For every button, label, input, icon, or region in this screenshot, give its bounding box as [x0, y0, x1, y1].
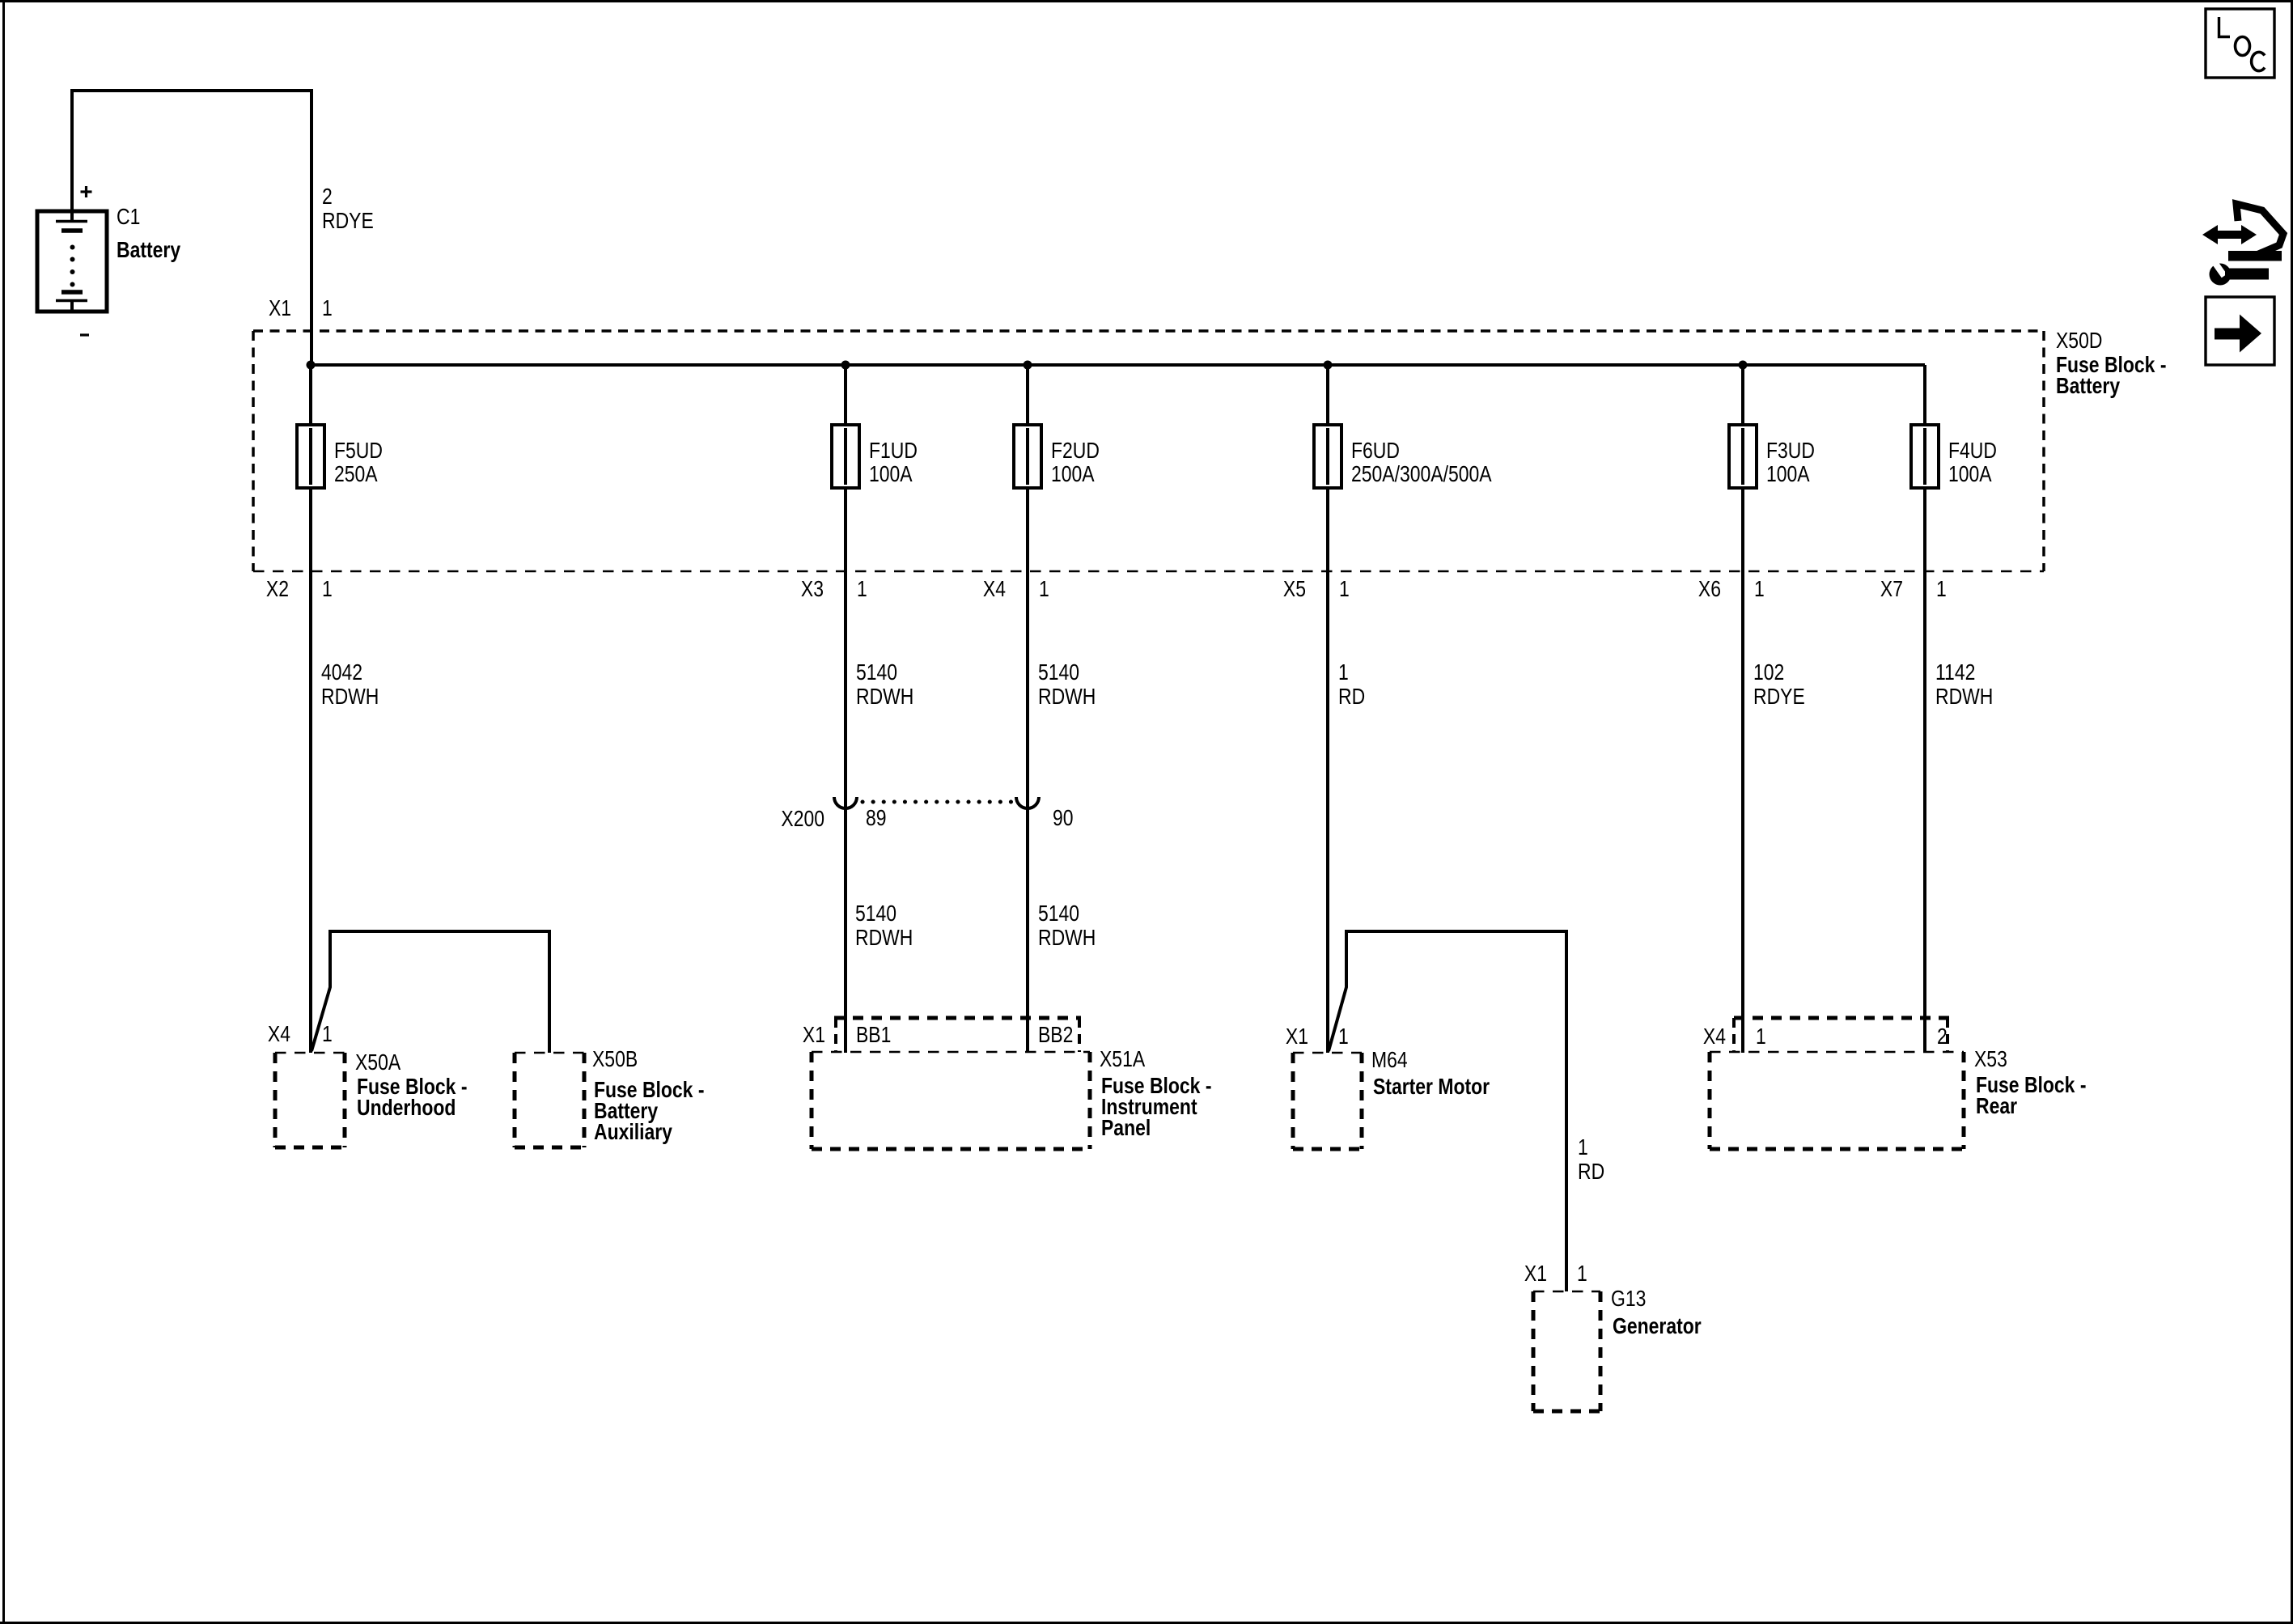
svg-text:X50B: X50B	[592, 1047, 638, 1072]
fuse block instrument panel X51A box	[812, 1052, 1090, 1149]
svg-text:Panel: Panel	[1101, 1116, 1151, 1141]
generator G13 box	[1533, 1291, 1600, 1411]
svg-text:5140: 5140	[855, 901, 896, 926]
svg-text:Starter Motor: Starter Motor	[1373, 1075, 1490, 1100]
svg-text:RDWH: RDWH	[321, 685, 379, 710]
svg-text:X1: X1	[1524, 1261, 1547, 1287]
svg-text:F3UD: F3UD	[1766, 439, 1815, 464]
fuse block rear X53 box	[1710, 1052, 1964, 1149]
svg-text:RDYE: RDYE	[322, 209, 374, 234]
wire through fuse F2UD	[1026, 365, 1029, 1053]
pin bracket BB2	[1078, 1018, 1081, 1052]
svg-text:F5UD: F5UD	[334, 439, 383, 464]
svg-text:Auxiliary: Auxiliary	[594, 1120, 673, 1145]
fuse block battery auxiliary X50B box	[515, 1053, 584, 1147]
svg-text:C1: C1	[117, 205, 140, 230]
svg-text:4042: 4042	[321, 660, 362, 685]
connector X4 bar (X53)	[1734, 1016, 1949, 1020]
svg-text:100A: 100A	[1948, 462, 1992, 487]
wire through fuse F5UD	[309, 365, 312, 1053]
continue arrow icon	[2206, 297, 2274, 365]
wire battery positive to fuse block (2 RDYE)	[72, 91, 312, 365]
wire through fuse F4UD	[1923, 365, 1926, 1053]
svg-text:G13: G13	[1611, 1287, 1646, 1312]
junction node at F3UD	[1739, 361, 1748, 370]
svg-text:X51A: X51A	[1100, 1047, 1146, 1072]
svg-text:1: 1	[1339, 577, 1350, 602]
svg-text:RDWH: RDWH	[1038, 685, 1096, 710]
starter motor M64 box	[1293, 1053, 1362, 1149]
svg-text:5140: 5140	[1038, 660, 1079, 685]
svg-text:X4: X4	[983, 577, 1006, 602]
svg-text:BB1: BB1	[856, 1023, 891, 1048]
svg-text:89: 89	[866, 806, 887, 831]
fuse F1UD 100A	[832, 425, 859, 488]
svg-text:X3: X3	[801, 577, 824, 602]
svg-text:RD: RD	[1338, 685, 1365, 710]
svg-text:1: 1	[322, 1022, 333, 1047]
LOC legend box	[2206, 9, 2274, 78]
svg-text:F4UD: F4UD	[1948, 439, 1997, 464]
svg-text:100A: 100A	[869, 462, 913, 487]
svg-text:X2: X2	[266, 577, 289, 602]
svg-text:X50A: X50A	[355, 1050, 401, 1075]
junction node at F2UD	[1024, 361, 1032, 370]
svg-text:1142: 1142	[1935, 660, 1975, 685]
svg-text:X1: X1	[269, 296, 291, 321]
svg-text:X200: X200	[781, 807, 824, 832]
fuse block underhood X50A box	[275, 1053, 345, 1147]
svg-text:F1UD: F1UD	[869, 439, 918, 464]
X200 dotted tie line	[863, 800, 1014, 804]
svg-text:5140: 5140	[1038, 901, 1079, 926]
svg-text:F2UD: F2UD	[1051, 439, 1100, 464]
svg-text:2: 2	[1937, 1024, 1948, 1049]
connector X1 bar (X51A)	[834, 1016, 1081, 1020]
harness icon (double arrow with hook and wrench)	[2202, 204, 2283, 286]
svg-text:BB2: BB2	[1038, 1023, 1073, 1048]
svg-text:RDWH: RDWH	[855, 926, 913, 951]
pin bracket 2 (X53)	[1946, 1018, 1949, 1052]
svg-text:102: 102	[1753, 660, 1784, 685]
battery C1	[37, 211, 107, 312]
wire through fuse F3UD	[1741, 365, 1744, 1053]
battery minus terminal	[80, 333, 89, 336]
svg-text:RD: RD	[1578, 1160, 1604, 1185]
svg-text:M64: M64	[1371, 1048, 1408, 1073]
svg-text:5140: 5140	[856, 660, 897, 685]
svg-text:Generator: Generator	[1613, 1314, 1702, 1339]
fuse F2UD 100A	[1014, 425, 1041, 488]
svg-text:1: 1	[1578, 1135, 1588, 1160]
svg-text:X1: X1	[803, 1023, 825, 1048]
svg-text:250A/300A/500A: 250A/300A/500A	[1351, 462, 1492, 487]
svg-text:100A: 100A	[1051, 462, 1095, 487]
svg-text:Battery: Battery	[2056, 374, 2121, 399]
svg-text:1: 1	[1754, 577, 1765, 602]
svg-text:X4: X4	[1703, 1024, 1726, 1049]
svg-text:X1: X1	[1286, 1024, 1308, 1049]
fuse block - battery X50D outline	[253, 331, 2044, 571]
junction node at F5UD	[307, 361, 316, 370]
svg-text:X53: X53	[1974, 1047, 2007, 1072]
fuse F4UD 100A	[1911, 425, 1939, 488]
fuse F3UD 100A	[1729, 425, 1757, 488]
svg-text:1: 1	[1936, 577, 1947, 602]
svg-text:X5: X5	[1283, 577, 1306, 602]
wire branch to fuse block battery auxiliary	[312, 931, 549, 1053]
junction node at F1UD	[841, 361, 850, 370]
inline connector X200 socket 90	[1016, 797, 1039, 808]
svg-text:2: 2	[322, 184, 333, 210]
wire through fuse F6UD	[1326, 365, 1329, 1053]
svg-text:90: 90	[1053, 806, 1074, 831]
svg-text:1: 1	[1338, 1024, 1349, 1049]
svg-text:100A: 100A	[1766, 462, 1810, 487]
svg-text:Rear: Rear	[1976, 1094, 2017, 1119]
svg-text:Battery: Battery	[117, 238, 181, 263]
svg-text:RDWH: RDWH	[856, 685, 913, 710]
pin bracket 1 (X53)	[1732, 1018, 1736, 1052]
svg-text:1: 1	[1039, 577, 1049, 602]
bus wire from battery feed across fuse block	[311, 363, 1925, 367]
fuse F6UD 250A/300A/500A	[1314, 425, 1341, 488]
svg-text:X4: X4	[268, 1022, 290, 1047]
svg-text:250A: 250A	[334, 462, 378, 487]
battery plus terminal	[81, 186, 92, 197]
inline connector X200 socket 89	[834, 797, 857, 808]
wire through fuse F1UD	[844, 365, 847, 1053]
svg-text:X7: X7	[1880, 577, 1903, 602]
svg-text:1: 1	[322, 296, 333, 321]
svg-text:1: 1	[322, 577, 333, 602]
svg-text:X50D: X50D	[2056, 329, 2102, 354]
svg-text:RDYE: RDYE	[1753, 685, 1805, 710]
wire branch to generator (1 RD)	[1329, 931, 1566, 1291]
svg-text:1: 1	[1756, 1024, 1766, 1049]
svg-text:RDWH: RDWH	[1935, 685, 1993, 710]
svg-text:X6: X6	[1698, 577, 1721, 602]
svg-text:1: 1	[1338, 660, 1349, 685]
svg-text:1: 1	[857, 577, 867, 602]
svg-text:F6UD: F6UD	[1351, 439, 1400, 464]
pin bracket BB1	[834, 1018, 837, 1052]
svg-text:1: 1	[1577, 1261, 1587, 1287]
junction node at F6UD	[1324, 361, 1333, 370]
fuse F5UD 250A	[297, 425, 324, 488]
svg-text:RDWH: RDWH	[1038, 926, 1096, 951]
svg-text:Underhood: Underhood	[357, 1096, 456, 1121]
